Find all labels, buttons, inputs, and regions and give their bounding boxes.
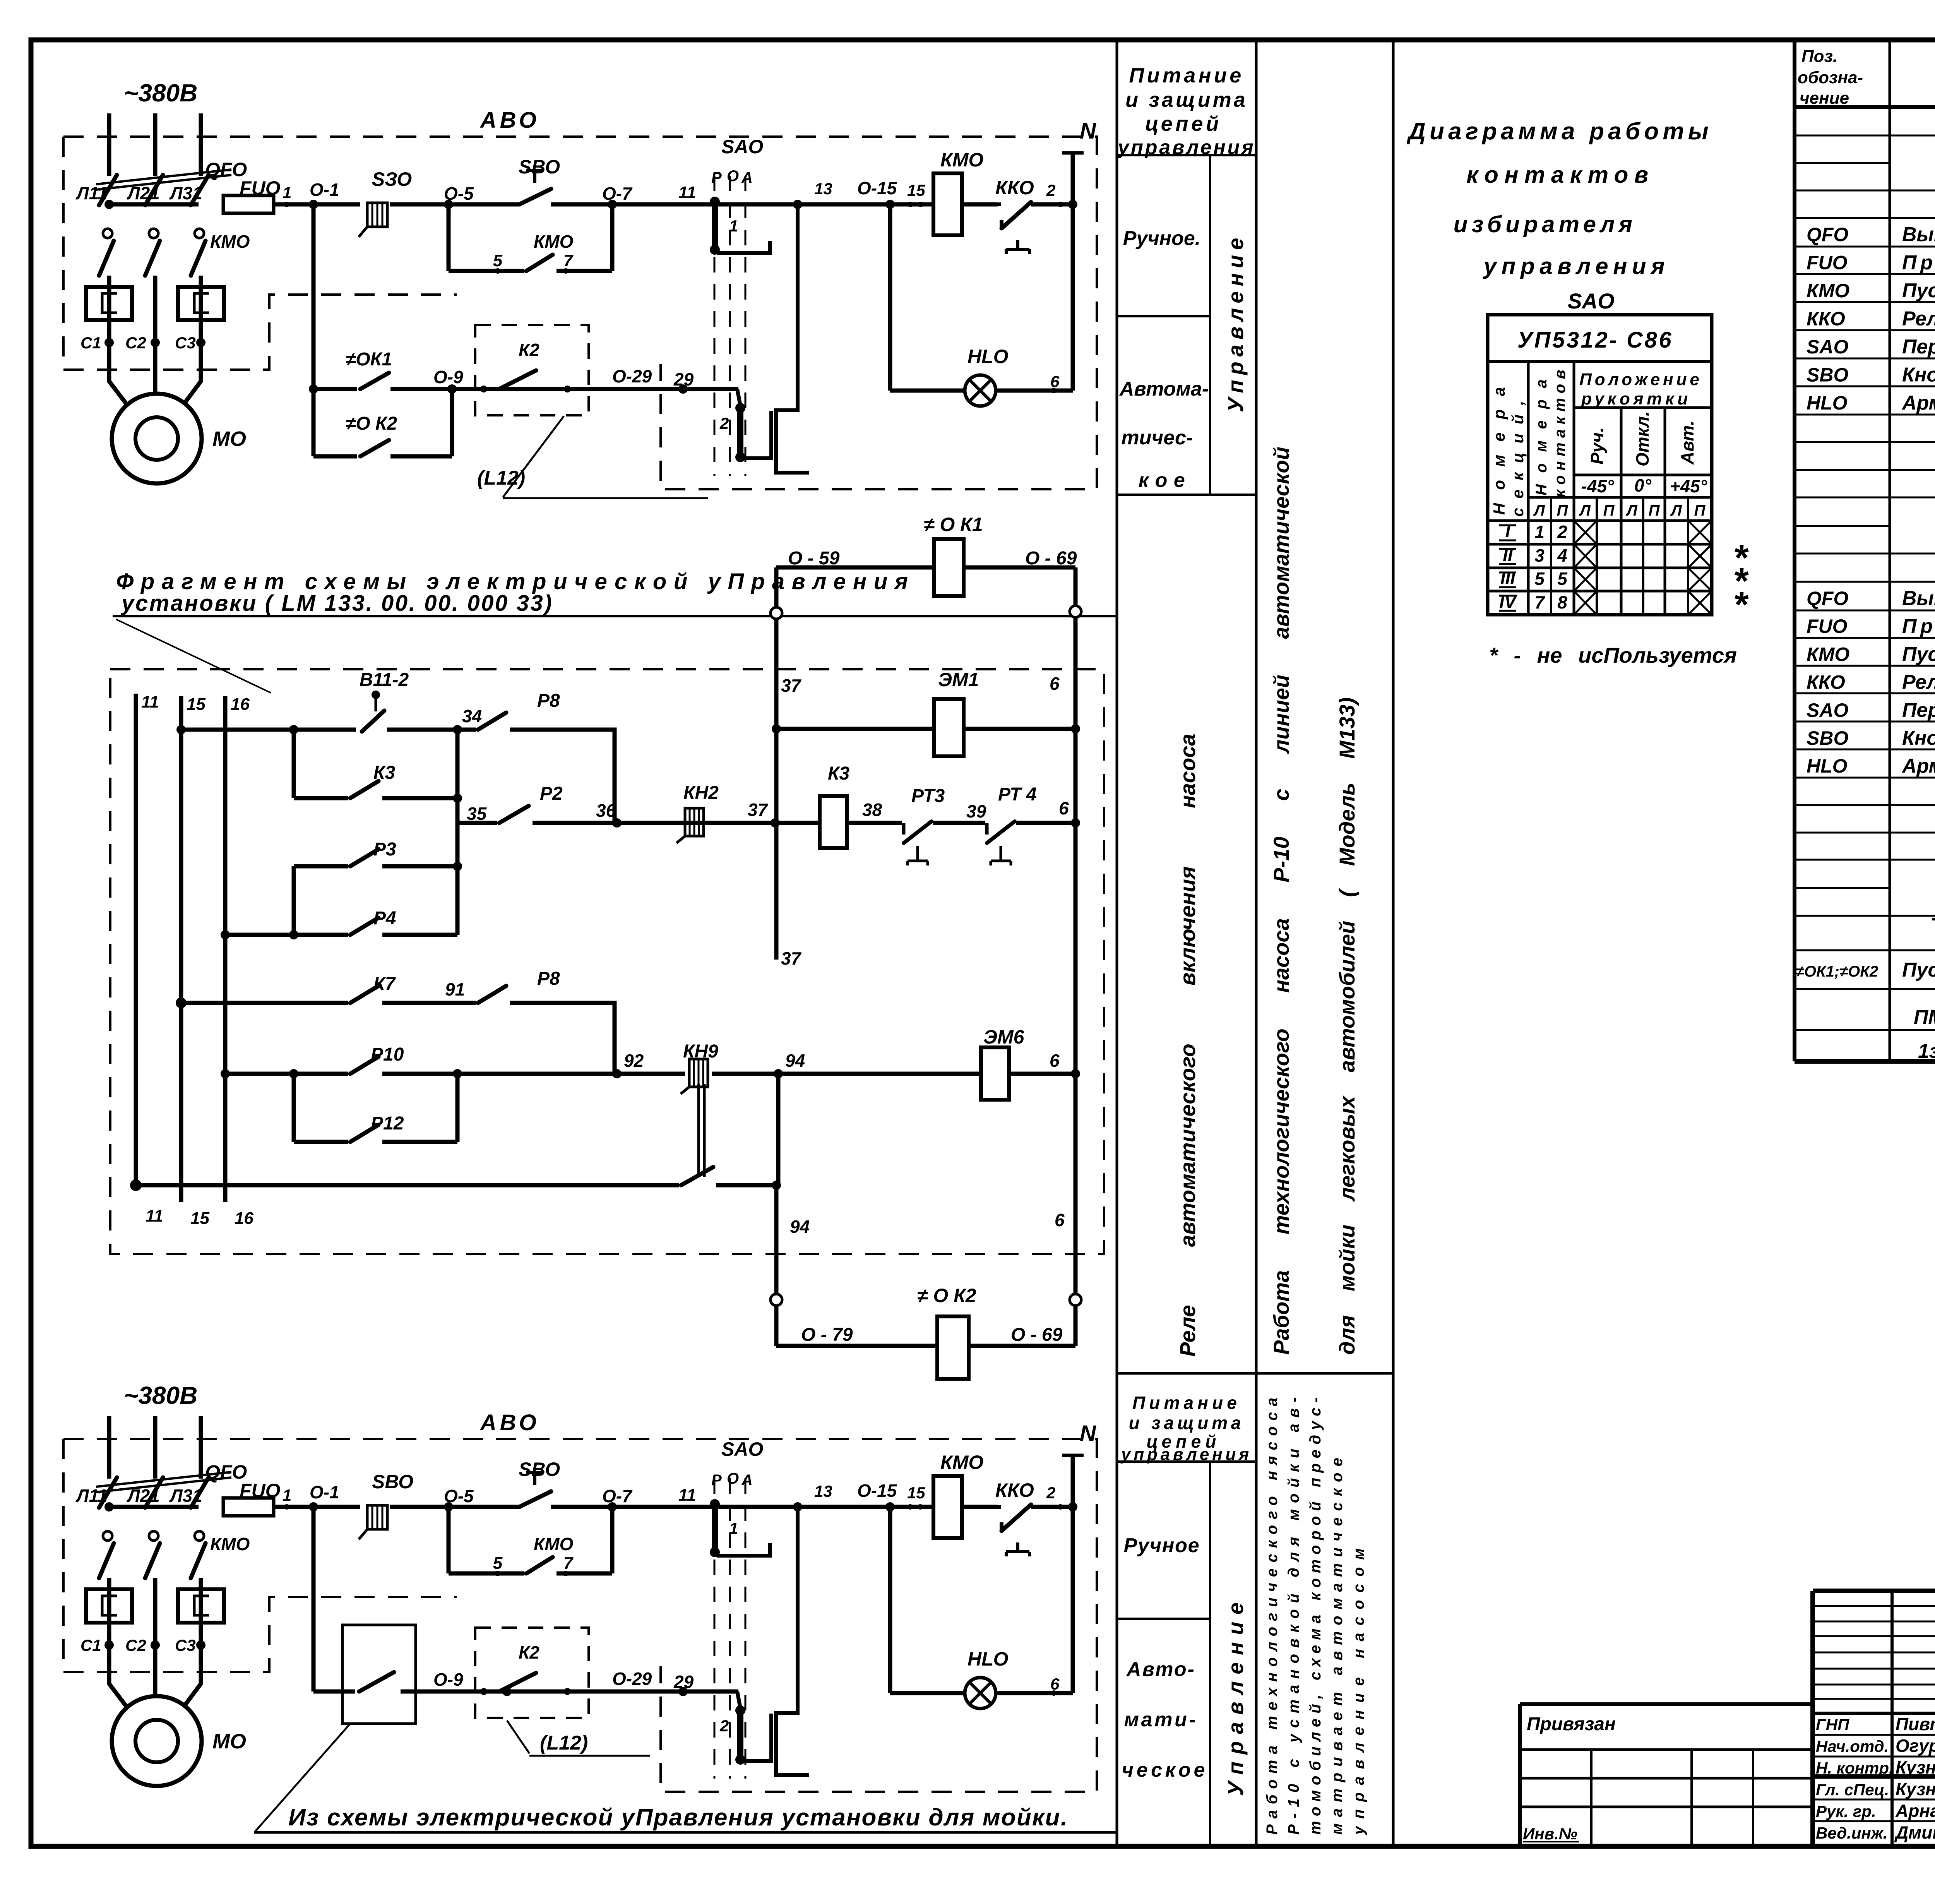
svg-text:КМО: КМО — [210, 1534, 250, 1554]
svg-text:Р12: Р12 — [371, 1113, 404, 1134]
svg-text:и защита: и защита — [1129, 1413, 1245, 1433]
svg-text:секций,: секций, — [1509, 392, 1527, 517]
svg-text:Л: Л — [1533, 502, 1545, 519]
svg-text:38: 38 — [862, 800, 882, 820]
svg-text:5: 5 — [1534, 569, 1545, 589]
svg-text:Питание: Питание — [1132, 1393, 1241, 1413]
svg-text:Нач.отд.: Нач.отд. — [1816, 1737, 1889, 1755]
svg-text:П: П — [1694, 502, 1706, 519]
svg-text:29: 29 — [673, 1672, 694, 1692]
svg-text:11: 11 — [678, 1486, 696, 1505]
svg-text:ККО: ККО — [995, 1479, 1034, 1501]
svg-text:29: 29 — [673, 369, 694, 389]
svg-text:О - 69: О - 69 — [1011, 1325, 1063, 1345]
svg-text:6: 6 — [1050, 1675, 1060, 1693]
svg-text:ПМЛ- 110004; 4кат.~ 110В;: ПМЛ- 110004; 4кат.~ 110В; 50ГЦ; — [1914, 1006, 1935, 1028]
svg-text:КМО: КМО — [1807, 280, 1849, 302]
svg-text:39: 39 — [966, 801, 986, 821]
svg-text:~380В: ~380В — [124, 79, 197, 107]
svg-text:Диаграмма работы: Диаграмма работы — [1406, 118, 1712, 145]
svg-text:1з.к. всПомогательной цепи: 1з.к. всПомогательной цепи — [1918, 1040, 1935, 1063]
svg-text:КН2: КН2 — [683, 783, 719, 803]
svg-text:П: П — [1649, 502, 1660, 519]
svg-text:Р: Р — [711, 1472, 722, 1489]
svg-text:11: 11 — [141, 692, 159, 711]
svg-text:П: П — [1603, 502, 1615, 519]
svg-text:контактов: контактов — [1551, 365, 1569, 497]
svg-text:QFО: QFО — [1807, 224, 1848, 245]
svg-text:Л21: Л21 — [127, 183, 160, 203]
svg-text:Р-10 с установкой для мойки ав: Р-10 с установкой для мойки ав- — [1285, 1391, 1302, 1835]
svg-text:Р10: Р10 — [371, 1044, 404, 1065]
svg-text:94: 94 — [785, 1051, 805, 1071]
svg-text:1: 1 — [729, 217, 738, 235]
svg-text:4: 4 — [1557, 545, 1567, 566]
svg-text:РТ 4: РТ 4 — [998, 784, 1037, 805]
svg-text:КМО: КМО — [210, 231, 250, 252]
svg-text:N: N — [1080, 118, 1096, 144]
svg-text:Выключатель автоматический: Выключатель автоматический — [1902, 223, 1935, 246]
svg-text:О - 79: О - 79 — [801, 1325, 853, 1345]
svg-text:+45°: +45° — [1670, 476, 1707, 496]
svg-text:Ручное: Ручное — [1124, 1534, 1200, 1557]
svg-text:О-5: О-5 — [444, 1486, 474, 1506]
svg-text:Управление: Управление — [1223, 233, 1248, 412]
svg-text:АВО: АВО — [479, 108, 540, 133]
svg-text:6: 6 — [1059, 798, 1069, 818]
svg-text:15: 15 — [907, 181, 925, 199]
svg-text:N: N — [1080, 1421, 1096, 1446]
svg-text:SAО: SAО — [721, 1438, 763, 1460]
svg-text:ЭМ1: ЭМ1 — [938, 669, 979, 691]
svg-text:мати-: мати- — [1124, 1709, 1198, 1731]
svg-text:37: 37 — [781, 675, 802, 696]
svg-text:HLО: HLО — [1807, 392, 1848, 414]
svg-text:чение: чение — [1800, 89, 1849, 108]
svg-text:управления: управления — [1120, 1445, 1252, 1464]
svg-text:FUО: FUО — [240, 1480, 281, 1501]
svg-text:Поз.: Поз. — [1801, 47, 1837, 66]
svg-text:Номера: Номера — [1490, 374, 1508, 515]
svg-text:94: 94 — [790, 1217, 810, 1237]
svg-text:А: А — [741, 169, 753, 186]
svg-text:Л: Л — [1579, 502, 1591, 519]
svg-text:КМО: КМО — [534, 231, 574, 252]
svg-text:Арматура сигнальная: Арматура сигнальная — [1901, 392, 1935, 414]
svg-text:6: 6 — [1050, 372, 1060, 391]
svg-text:HLО: HLО — [1807, 755, 1848, 777]
svg-text:Переключатель универсальный: Переключатель универсальный — [1902, 699, 1935, 721]
svg-text:установки ( LМ 133. 00. 00. 00: установки ( LМ 133. 00. 00. 000 33) — [120, 591, 553, 616]
svg-text:III: III — [1500, 568, 1516, 588]
svg-text:2: 2 — [1557, 522, 1567, 542]
svg-text:≠ОК1;≠ОК2: ≠ОК1;≠ОК2 — [1796, 963, 1878, 980]
svg-text:6: 6 — [1050, 1051, 1060, 1071]
svg-text:Гл. сПец.: Гл. сПец. — [1816, 1781, 1889, 1799]
svg-text:О: О — [727, 1470, 739, 1487]
svg-text:П: П — [1557, 502, 1569, 519]
svg-text:ККО: ККО — [1807, 308, 1845, 330]
svg-text:О-5: О-5 — [444, 183, 474, 204]
svg-text:Реле автоматического включен: Реле автоматического включения насоса — [1175, 733, 1200, 1357]
svg-text:7: 7 — [1534, 592, 1545, 612]
svg-text:управление насосом: управление насосом — [1350, 1541, 1367, 1835]
svg-text:тичес-: тичес- — [1121, 427, 1193, 449]
svg-text:1: 1 — [729, 1519, 738, 1537]
svg-text:Привязан: Привязан — [1527, 1714, 1616, 1734]
svg-text:Н. контр.: Н. контр. — [1816, 1759, 1894, 1777]
svg-text:Арнаутова: Арнаутова — [1895, 1801, 1935, 1821]
svg-text:Огурцов: Огурцов — [1896, 1736, 1935, 1756]
svg-text:QFО: QFО — [1807, 588, 1848, 609]
svg-text:для мойки легковых автом: для мойки легковых автомобилей ( Модель … — [1335, 698, 1359, 1355]
svg-text:избирателя: избирателя — [1454, 211, 1637, 237]
svg-text:Руч.: Руч. — [1587, 427, 1607, 464]
svg-text:HLО: HLО — [967, 1648, 1009, 1670]
svg-text:FUО: FUО — [240, 177, 281, 199]
svg-text:37: 37 — [781, 948, 802, 968]
svg-text:К2: К2 — [519, 1642, 539, 1662]
svg-text:I: I — [1505, 521, 1511, 541]
svg-text:6: 6 — [1050, 674, 1060, 694]
svg-text:Кузнецов: Кузнецов — [1896, 1779, 1935, 1799]
svg-text:Л11: Л11 — [75, 1486, 107, 1506]
svg-text:МО: МО — [212, 1730, 246, 1753]
svg-text:IV: IV — [1499, 591, 1517, 612]
svg-text:КН9: КН9 — [683, 1041, 718, 1062]
svg-text:Питание: Питание — [1129, 64, 1244, 87]
svg-text:Пускатель магнитный: Пускатель магнитный — [1902, 643, 1935, 665]
svg-text:92: 92 — [624, 1051, 644, 1071]
svg-text:SВО: SВО — [519, 156, 560, 178]
svg-text:11: 11 — [146, 1206, 163, 1225]
svg-text:управления: управления — [1483, 253, 1670, 279]
svg-text:обозна-: обозна- — [1798, 68, 1863, 87]
svg-text:Автома-: Автома- — [1119, 378, 1209, 400]
svg-text:91: 91 — [445, 979, 465, 999]
svg-text:К3: К3 — [373, 763, 396, 783]
svg-text:SAО: SAО — [1807, 336, 1848, 358]
svg-text:ЭМ6: ЭМ6 — [983, 1026, 1025, 1048]
svg-text:О - 59: О - 59 — [788, 548, 840, 569]
svg-text:КМО: КМО — [940, 1452, 983, 1473]
svg-text:Л21: Л21 — [127, 1486, 160, 1506]
svg-text:7: 7 — [563, 1554, 574, 1573]
svg-text:рукоятки: рукоятки — [1581, 389, 1691, 408]
svg-text:Предохранитель: Предохранитель — [1902, 252, 1935, 274]
svg-text:С1: С1 — [80, 334, 101, 352]
svg-text:(L12): (L12) — [540, 1732, 588, 1754]
svg-text:Р: Р — [711, 169, 722, 186]
svg-text:Л: Л — [1670, 502, 1682, 519]
svg-text:11: 11 — [678, 183, 696, 202]
svg-text:Кнопка управления: Кнопка управления — [1902, 364, 1935, 386]
svg-text:13: 13 — [814, 180, 832, 198]
svg-text:15: 15 — [907, 1484, 925, 1502]
svg-text:контактов: контактов — [1466, 162, 1654, 188]
svg-text:SBО: SBО — [1807, 364, 1848, 386]
svg-text:С1: С1 — [80, 1636, 101, 1654]
svg-text:А: А — [741, 1472, 753, 1489]
svg-text:О: О — [727, 168, 739, 185]
svg-text:SAО: SAО — [721, 136, 763, 158]
svg-text:Вед.инж.: Вед.инж. — [1816, 1824, 1887, 1842]
svg-text:Работа технологического насо: Работа технологического насоса Р-10 с ли… — [1269, 447, 1293, 1355]
svg-text:Переключатель универсальный: Переключатель универсальный — [1902, 336, 1935, 358]
svg-text:ККО: ККО — [995, 177, 1034, 199]
svg-text:О-29: О-29 — [612, 366, 652, 386]
svg-text:2: 2 — [719, 414, 729, 432]
svg-text:-45°: -45° — [1581, 476, 1614, 496]
svg-text:КМО: КМО — [534, 1534, 574, 1554]
svg-text:≠ О К2: ≠ О К2 — [917, 1285, 976, 1306]
svg-text:Авт.: Авт. — [1677, 421, 1697, 465]
svg-text:О-1: О-1 — [310, 1482, 339, 1502]
svg-text:матривает автоматическое: матривает автоматическое — [1329, 1452, 1346, 1835]
svg-text:С3: С3 — [175, 1636, 196, 1654]
svg-text:О-9: О-9 — [433, 1669, 463, 1690]
svg-text:≠ О К1: ≠ О К1 — [924, 514, 983, 535]
svg-text:5: 5 — [493, 251, 503, 270]
svg-text:О-1: О-1 — [310, 180, 339, 200]
svg-text:7: 7 — [563, 251, 574, 270]
svg-text:34: 34 — [462, 706, 482, 726]
svg-text:Р3: Р3 — [373, 839, 396, 860]
svg-text:5: 5 — [493, 1554, 503, 1573]
svg-text:1: 1 — [1534, 522, 1545, 542]
svg-text:16: 16 — [231, 695, 250, 714]
svg-text:ККО: ККО — [1807, 672, 1845, 693]
svg-text:О-15: О-15 — [857, 1481, 897, 1501]
svg-text:АВО: АВО — [479, 1410, 540, 1435]
svg-text:≠О К2: ≠О К2 — [346, 413, 397, 434]
svg-text:* - не исПользуется: * - не исПользуется — [1489, 643, 1737, 667]
svg-text:Реле тепловое: Реле тепловое — [1902, 308, 1935, 330]
svg-text:36: 36 — [596, 800, 616, 821]
svg-text:В11-2: В11-2 — [360, 670, 409, 690]
svg-text:и защита: и защита — [1125, 88, 1248, 111]
svg-text:15: 15 — [190, 1209, 209, 1228]
svg-text:Авто-: Авто- — [1126, 1658, 1195, 1681]
svg-text:кое: кое — [1139, 469, 1192, 492]
svg-text:1: 1 — [283, 1486, 291, 1504]
svg-text:35: 35 — [467, 804, 487, 824]
svg-text:Положение: Положение — [1579, 370, 1702, 389]
svg-text:Р8: Р8 — [537, 968, 560, 989]
svg-text:8: 8 — [1557, 592, 1567, 612]
svg-text:О-7: О-7 — [602, 1486, 633, 1506]
svg-text:томобилей, схема которой преду: томобилей, схема которой предус- — [1307, 1392, 1324, 1835]
svg-text:~380В: ~380В — [124, 1381, 197, 1409]
svg-text:С3: С3 — [175, 334, 196, 352]
svg-text:Л31: Л31 — [169, 183, 202, 203]
svg-text:Л: Л — [1625, 502, 1638, 519]
svg-text:МО: МО — [212, 427, 246, 451]
svg-text:Выключатель автоматический: Выключатель автоматический — [1902, 587, 1935, 610]
svg-text:Р4: Р4 — [373, 908, 396, 929]
svg-text:SЗО: SЗО — [372, 168, 412, 190]
svg-text:2: 2 — [1046, 181, 1055, 199]
svg-text:О-29: О-29 — [612, 1669, 652, 1689]
svg-text:2: 2 — [1046, 1484, 1055, 1502]
svg-text:Дмитриева: Дмитриева — [1894, 1822, 1935, 1842]
svg-text:3: 3 — [1534, 545, 1545, 566]
svg-text:О - 69: О - 69 — [1025, 548, 1077, 569]
svg-text:*: * — [1733, 584, 1749, 625]
svg-text:FUО: FUО — [1807, 615, 1848, 637]
svg-text:Л11: Л11 — [75, 183, 107, 203]
svg-text:Рук. гр.: Рук. гр. — [1816, 1802, 1876, 1820]
svg-text:управления: управления — [1116, 136, 1255, 159]
svg-text:К7: К7 — [373, 974, 396, 994]
svg-text:К2: К2 — [519, 340, 539, 360]
svg-text:ческое: ческое — [1122, 1759, 1208, 1781]
svg-text:FUО: FUО — [1807, 252, 1848, 274]
svg-text:5: 5 — [1557, 569, 1568, 589]
svg-text:О-9: О-9 — [433, 367, 463, 387]
svg-text:Кнопка управления: Кнопка управления — [1902, 727, 1935, 749]
svg-text:SВО: SВО — [372, 1471, 413, 1493]
svg-text:цепей: цепей — [1145, 112, 1222, 135]
svg-text:Работа технологического нясоса: Работа технологического нясоса — [1264, 1392, 1281, 1835]
svg-text:≠ОК1: ≠ОК1 — [346, 349, 392, 370]
svg-text:Р2: Р2 — [540, 783, 563, 804]
svg-text:Реле тепловое: Реле тепловое — [1902, 671, 1935, 694]
svg-text:Пивторак: Пивторак — [1896, 1714, 1935, 1734]
svg-text:SAО: SAО — [1807, 699, 1848, 721]
svg-text:ГНП: ГНП — [1816, 1715, 1849, 1734]
svg-text:К3: К3 — [828, 763, 850, 784]
svg-text:Арматура сигнальная: Арматура сигнальная — [1901, 755, 1935, 777]
svg-text:С2: С2 — [125, 1636, 146, 1654]
svg-text:SBО: SBО — [1807, 727, 1848, 749]
svg-text:13: 13 — [814, 1482, 832, 1500]
svg-text:С2: С2 — [125, 334, 146, 352]
svg-text:Откл.: Откл. — [1632, 411, 1652, 466]
svg-text:1: 1 — [283, 183, 291, 202]
svg-text:РТ3: РТ3 — [911, 786, 945, 806]
svg-text:КМО: КМО — [940, 149, 983, 171]
svg-text:6: 6 — [1055, 1210, 1065, 1230]
svg-text:Из схемы электрической уПра: Из схемы электрической уПравления устано… — [288, 1804, 1068, 1831]
svg-text:0°: 0° — [1634, 475, 1652, 495]
svg-text:Пускатель магнитный: Пускатель магнитный — [1902, 279, 1935, 302]
svg-text:Л31: Л31 — [169, 1486, 202, 1506]
svg-text:16: 16 — [235, 1209, 253, 1228]
svg-text:II: II — [1503, 545, 1513, 565]
svg-text:Номера: Номера — [1533, 368, 1550, 495]
svg-text:О-15: О-15 — [857, 178, 897, 198]
svg-text:Предохранитель: Предохранитель — [1902, 615, 1935, 638]
svg-text:Управление: Управление — [1223, 1596, 1248, 1796]
svg-text:УП5312- С86: УП5312- С86 — [1517, 327, 1673, 353]
svg-text:HLО: HLО — [967, 346, 1009, 367]
svg-text:2: 2 — [719, 1717, 729, 1735]
svg-text:SВО: SВО — [519, 1458, 560, 1480]
svg-text:15: 15 — [187, 695, 205, 714]
svg-text:Р8: Р8 — [537, 691, 560, 711]
svg-text:Инв.№: Инв.№ — [1523, 1825, 1577, 1843]
svg-text:КМО: КМО — [1807, 643, 1849, 665]
svg-text:Ручное.: Ручное. — [1123, 227, 1200, 250]
svg-text:SAО: SAО — [1567, 289, 1614, 313]
svg-text:Кузнецов: Кузнецов — [1896, 1757, 1935, 1777]
svg-text:37: 37 — [748, 800, 769, 820]
svg-text:О-7: О-7 — [602, 183, 633, 204]
svg-text:Пускатель электромагнитный: Пускатель электромагнитный — [1902, 959, 1935, 981]
